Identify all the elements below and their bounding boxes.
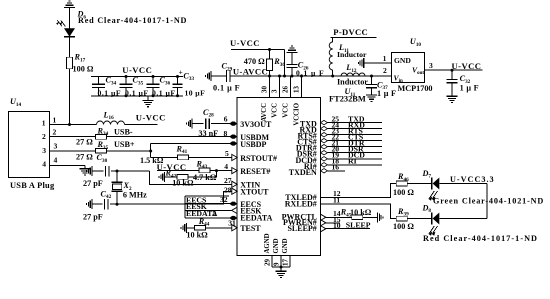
svg-text:1: 1 (383, 54, 387, 63)
svg-text:VCC: VCC (283, 103, 290, 118)
capacitor C28 (206, 118, 209, 129)
pin marker DSR (321, 151, 328, 155)
connector U14 USB A Plug (9, 111, 50, 177)
node crystal bottom (116, 203, 119, 206)
svg-text:VCC: VCC (272, 103, 279, 118)
wire pin 23 net RTS (327, 134, 382, 136)
ground (C42) (87, 199, 92, 209)
node C37 tap (370, 75, 373, 78)
capacitor C32 (447, 70, 458, 96)
svg-text:U-VCC3.3: U-VCC3.3 (450, 175, 495, 184)
wire to net U-VCC (125, 124, 158, 126)
capacitor C33 polarized (173, 77, 183, 96)
node (280, 266, 283, 269)
wire RXLED# pin 11 (321, 204, 397, 219)
svg-text:MCP1700: MCP1700 (398, 84, 433, 93)
svg-text:3: 3 (271, 89, 279, 93)
pin marker USBDP (229, 141, 237, 145)
svg-text:100 Ω: 100 Ω (73, 65, 94, 74)
wire LED rail (486, 184, 488, 219)
svg-text:1: 1 (53, 115, 57, 124)
node (176, 75, 179, 78)
svg-text:SLEEP: SLEEP (346, 221, 371, 230)
ground (C29) (206, 71, 211, 81)
svg-text:3V3OUT: 3V3OUT (240, 120, 272, 129)
svg-text:2: 2 (42, 132, 46, 141)
node crystal top (116, 170, 119, 173)
pin marker DCD (321, 157, 328, 161)
resistor R34 (95, 135, 106, 140)
pin marker PWREN# (321, 220, 326, 226)
wire AVCC node line (230, 75, 392, 77)
wire VCCIO pin 13 (301, 76, 303, 98)
svg-text:4.7 kΩ: 4.7 kΩ (193, 173, 217, 182)
svg-text:USB-: USB- (114, 128, 133, 137)
pin marker CTS (321, 139, 328, 143)
pin marker EESK (232, 207, 237, 213)
node (278, 75, 281, 78)
wire pin 22 net CTS (327, 140, 382, 142)
wire pin 25 net TXD (327, 122, 382, 124)
wire (69, 11, 71, 29)
bottom rail (cap bank) (91, 95, 183, 97)
svg-text:P-DVCC: P-DVCC (333, 27, 368, 37)
resistor R45 (352, 215, 363, 220)
wire to chip pin 7 USBDP (151, 143, 231, 145)
ground (C32) (447, 93, 458, 103)
wire to crystal top node (111, 170, 150, 172)
pin marker EEDATA (229, 216, 237, 220)
svg-text:33 nF: 33 nF (198, 129, 218, 138)
svg-text:4: 4 (224, 162, 228, 171)
wire pin 21 net DTR (327, 146, 382, 148)
svg-text:EEDATA: EEDATA (240, 214, 272, 223)
wire VCC pin 3 (279, 76, 281, 98)
ground (R45) (378, 212, 383, 222)
svg-text:10 kΩ: 10 kΩ (172, 178, 194, 187)
svg-text:4: 4 (42, 159, 46, 168)
wire pin 19 net DCD (327, 158, 382, 160)
wire C28 to chip pin 6 (211, 123, 230, 125)
svg-text:4: 4 (54, 156, 58, 165)
wire GND pin 9 (280, 256, 282, 268)
wire (187, 227, 195, 229)
wire D7 to rail (439, 183, 487, 185)
wire to R41 (151, 157, 178, 159)
svg-text:0.1 μF: 0.1 μF (98, 88, 122, 97)
svg-text:29: 29 (264, 259, 272, 267)
svg-text:28: 28 (224, 185, 232, 194)
ground (U10 GND) (358, 58, 363, 68)
wire P-DVCC rail (330, 37, 376, 39)
svg-text:0.1 μF: 0.1 μF (125, 88, 149, 97)
svg-text:2: 2 (53, 127, 57, 136)
svg-text:10: 10 (333, 221, 341, 230)
ground (C26 top) (287, 46, 298, 56)
wire PWREN# pin 15 (324, 222, 340, 224)
wire pin2 to R34 (49, 136, 95, 138)
svg-text:RSTOUT#: RSTOUT# (240, 154, 277, 163)
wire R46 to D7 (407, 183, 431, 185)
wire (92, 170, 104, 172)
ground (R44) (181, 223, 186, 233)
capacitor C42 (105, 199, 108, 210)
pin marker RXD (321, 126, 328, 130)
wire PWRCTL pin 14 (324, 216, 352, 218)
wire TXLED# pin 12 (321, 184, 397, 198)
svg-text:27 pF: 27 pF (83, 179, 103, 188)
svg-text:3: 3 (42, 146, 46, 155)
wire pin 24 net RXD (327, 128, 382, 130)
svg-text:11: 11 (333, 196, 340, 205)
svg-text:0.1 μF: 0.1 μF (152, 88, 176, 97)
svg-text:U-VCC: U-VCC (136, 113, 166, 123)
svg-text:GND: GND (282, 238, 289, 253)
svg-text:0.1 μ F: 0.1 μ F (213, 83, 240, 92)
ground (C37) (366, 92, 377, 102)
node USB+ junction (149, 150, 152, 153)
wire XTOUT return (117, 191, 233, 204)
svg-text:1 μ F: 1 μ F (460, 84, 479, 93)
wire Vout pin 3 (425, 69, 483, 71)
node D6 column junction (68, 123, 71, 126)
resistor R36 (267, 50, 273, 77)
crystal X2 (111, 171, 122, 204)
svg-text:27 Ω: 27 Ω (76, 137, 93, 146)
pin marker USBDM (229, 135, 237, 139)
wire XTIN (150, 171, 234, 184)
inductor L12 (341, 73, 365, 76)
svg-text:30: 30 (261, 86, 269, 94)
svg-text:U-VCC: U-VCC (452, 61, 482, 71)
wire pin 18 net RI (327, 164, 382, 166)
svg-text:U-VCC: U-VCC (122, 65, 152, 75)
pin marker PWRCTL (321, 214, 326, 220)
wire (192, 123, 204, 125)
svg-text:U-AVCC: U-AVCC (233, 66, 268, 76)
capacitor C30 (106, 166, 109, 177)
svg-text:2: 2 (213, 209, 217, 218)
pin marker XTOUT (232, 188, 237, 194)
node (125, 75, 128, 78)
svg-text:GND: GND (273, 238, 280, 253)
node (268, 75, 271, 78)
wire R44 to chip pin 31 (205, 227, 233, 229)
svg-text:RXLED#: RXLED# (285, 199, 317, 208)
ground (cap bank) (143, 96, 154, 107)
pin marker DTR (321, 145, 328, 149)
inductor L11 (329, 38, 332, 76)
wire AVCC pin 30 (269, 76, 271, 98)
capacitor C34 (92, 77, 105, 96)
svg-text:27 Ω: 27 Ω (76, 152, 93, 161)
svg-text:470 Ω: 470 Ω (244, 57, 265, 66)
wire crystal bottom node (110, 203, 117, 205)
svg-text:2: 2 (383, 66, 387, 75)
svg-text:26: 26 (282, 86, 290, 94)
svg-text:32: 32 (220, 195, 228, 204)
svg-text:TXDEN: TXDEN (289, 168, 317, 177)
svg-text:USBDP: USBDP (240, 140, 266, 149)
ground (chip) (276, 267, 287, 278)
svg-text:17: 17 (282, 259, 290, 267)
wire (165, 176, 178, 178)
capacitor C37 (366, 76, 377, 95)
resistor R46 (396, 181, 407, 186)
svg-text:6 MHz: 6 MHz (123, 190, 147, 199)
wire R41 to chip pin 5 (189, 157, 234, 159)
svg-text:27 pF: 27 pF (83, 212, 103, 221)
wire R45 to ground (363, 216, 377, 218)
U-VCC rail (cap bank) (91, 76, 183, 78)
svg-text:13: 13 (293, 86, 301, 94)
svg-text:3: 3 (429, 61, 433, 70)
svg-text:RESET#: RESET# (240, 167, 270, 176)
wire D8 to rail (439, 218, 487, 220)
svg-text:TEST: TEST (240, 224, 261, 233)
pin marker TXD (321, 120, 328, 124)
svg-text:XTOUT: XTOUT (240, 188, 269, 197)
ground (top of D6) (64, 1, 75, 11)
capacitor C29 (211, 70, 230, 82)
wire ground bus (272, 266, 290, 268)
svg-text:AGND: AGND (264, 233, 271, 253)
svg-text:3: 3 (54, 142, 58, 151)
svg-text:USB A Plug: USB A Plug (10, 181, 55, 190)
svg-text:8: 8 (224, 129, 228, 138)
wire rail corner (284, 50, 286, 77)
wire R42 to reset junction (188, 171, 216, 177)
wire (69, 69, 71, 125)
resistor R41 (178, 155, 189, 160)
wire R39 to D8 (407, 218, 431, 220)
pin marker RSTOUT# (232, 154, 237, 160)
pin marker RI (321, 163, 328, 167)
svg-text:Green Clear-404-1021-ND: Green Clear-404-1021-ND (433, 197, 544, 206)
regulator U10 MCP1700 (392, 53, 425, 83)
capacitor C35 (120, 77, 133, 96)
svg-text:5: 5 (225, 149, 229, 158)
pin marker RTS (321, 133, 328, 137)
LED D8 red (428, 213, 439, 236)
resistor R44 (194, 225, 205, 230)
svg-text:Inductor: Inductor (337, 78, 368, 87)
pin marker 3V3OUT (229, 122, 237, 126)
inductor L16 (97, 121, 125, 124)
wire AGND pin 29 (271, 256, 273, 268)
svg-text:USB+: USB+ (114, 140, 135, 149)
wire pin3 to R35 (49, 150, 95, 152)
svg-text:9: 9 (273, 262, 281, 266)
IC U11 FT232BM body (237, 98, 321, 256)
LED D6 (56, 20, 75, 37)
svg-text:+: + (179, 69, 183, 77)
pin marker TEST (232, 225, 237, 231)
ground (R42) (159, 172, 164, 182)
wire GND pin 1 (364, 62, 392, 64)
svg-text:16: 16 (332, 163, 340, 172)
capacitor C26 (287, 56, 298, 77)
node R36 top (268, 48, 271, 51)
pin marker XTIN (232, 181, 237, 187)
svg-text:6: 6 (224, 115, 228, 124)
wire SLEEP# pin 10 (324, 228, 370, 230)
resistor R42 (177, 175, 188, 180)
wire GND pin 17 (289, 256, 291, 268)
U-VCC rail (AVCC filter) (231, 49, 285, 51)
svg-text:100 Ω: 100 Ω (393, 188, 414, 197)
wire R43 to chip pin 4 (210, 170, 233, 172)
ground (C28) (187, 119, 192, 129)
LED D7 green (428, 178, 439, 201)
capacitor C36 (147, 77, 160, 96)
svg-text:27: 27 (224, 176, 232, 185)
wire U-VCC to R43 (157, 170, 199, 172)
ground (C30) (87, 166, 92, 176)
wire junction vertical (150, 144, 152, 158)
svg-text:Red Clear-404-1017-1-ND: Red Clear-404-1017-1-ND (423, 234, 538, 243)
svg-text:AVCC: AVCC (261, 103, 268, 122)
svg-text:FT232BM: FT232BM (329, 95, 366, 104)
node (300, 75, 303, 78)
node L11 bottom (331, 75, 334, 78)
wire pin4 to ground (49, 165, 85, 167)
pin marker EECS (229, 202, 237, 206)
svg-text:GND: GND (394, 56, 411, 65)
node reset junction (215, 169, 218, 172)
svg-text:Inductor: Inductor (337, 50, 367, 59)
wire USB- to chip pin 8 (106, 136, 230, 138)
svg-text:1: 1 (42, 118, 46, 127)
svg-text:1 μ F: 1 μ F (377, 89, 396, 98)
pin marker SLEEP# (321, 226, 326, 232)
resistor R17 (67, 57, 73, 69)
wire pin1 to L16 (49, 124, 96, 126)
resistor R39 (396, 216, 407, 221)
pin marker TXDEN (321, 169, 328, 173)
svg-text:10 kΩ: 10 kΩ (186, 230, 208, 239)
ground (USB shell) (80, 166, 91, 176)
wire USB+ to junction (106, 150, 150, 152)
pin marker RESET# (232, 168, 237, 174)
wire (69, 37, 71, 58)
node C32 tap (451, 69, 454, 72)
svg-text:Red Clear-404-1017-1-ND: Red Clear-404-1017-1-ND (78, 16, 187, 25)
resistor R35 (95, 149, 106, 154)
wire pin 20 net DSR (327, 152, 382, 154)
resistor R43 (199, 168, 210, 173)
wire VCC pin 26 (290, 76, 292, 98)
node (152, 75, 155, 78)
svg-text:SLEEP#: SLEEP# (287, 224, 316, 233)
svg-text:100 Ω: 100 Ω (393, 222, 414, 231)
net label box EECS/EESK/EEDATA (185, 196, 233, 218)
svg-text:RI: RI (348, 157, 357, 166)
wire pin 16 (327, 170, 345, 172)
svg-text:10 μF: 10 μF (185, 88, 206, 97)
wire (92, 203, 103, 205)
svg-text:U-VCC: U-VCC (230, 38, 260, 48)
svg-text:10 kΩ: 10 kΩ (350, 208, 372, 217)
